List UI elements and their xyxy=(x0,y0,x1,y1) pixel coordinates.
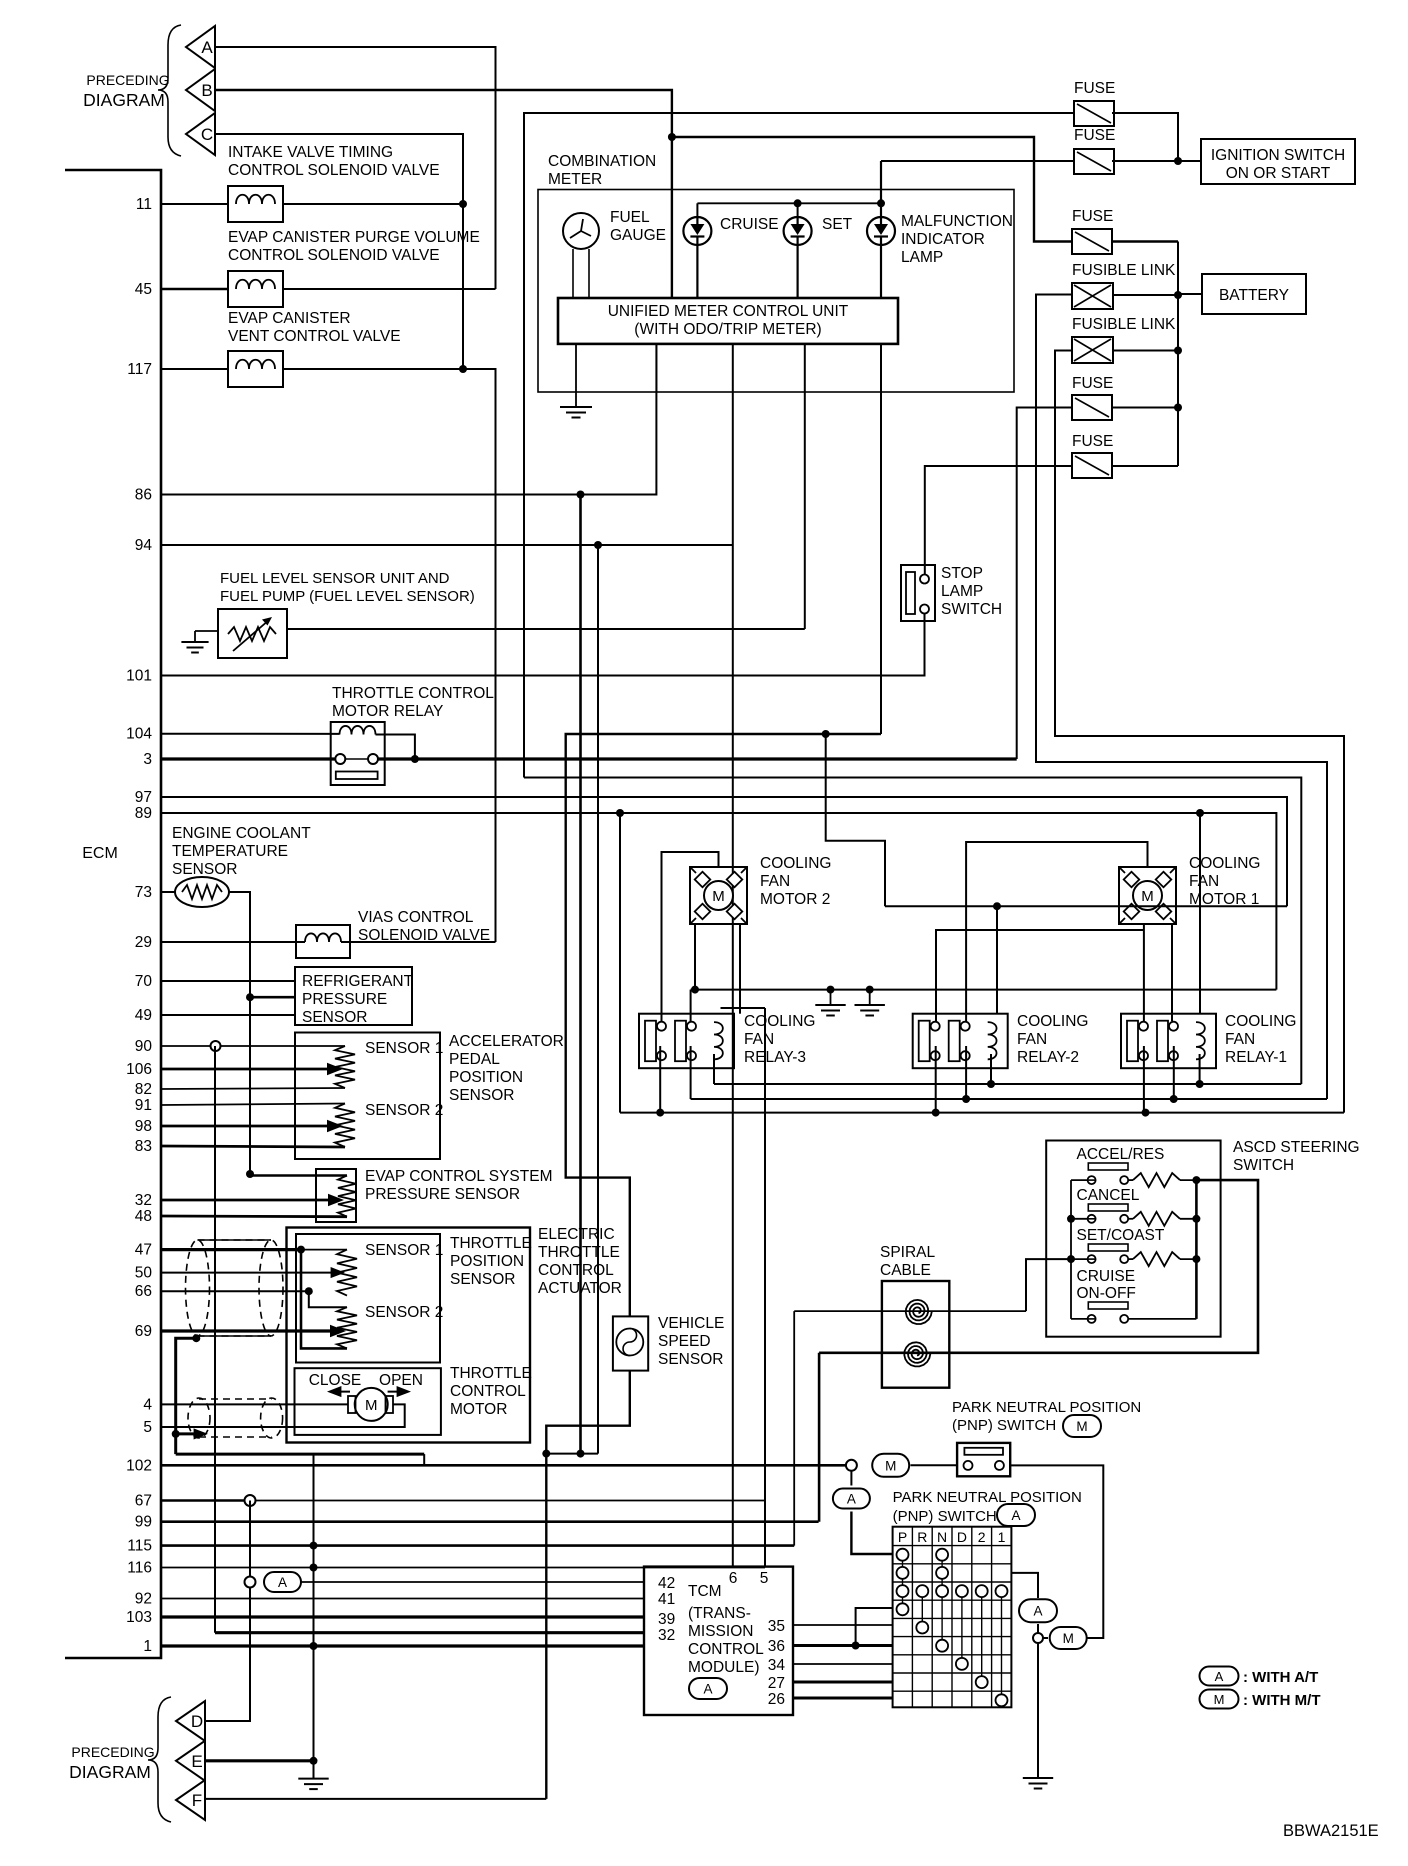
svg-text:A: A xyxy=(703,1682,712,1697)
svg-text:106: 106 xyxy=(126,1061,152,1078)
svg-text:COOLING: COOLING xyxy=(760,855,831,872)
svg-text:DIAGRAM: DIAGRAM xyxy=(83,90,165,110)
svg-text:ACCEL/RES: ACCEL/RES xyxy=(1077,1146,1165,1163)
svg-text:E: E xyxy=(191,1752,202,1771)
svg-text:C: C xyxy=(201,125,213,144)
svg-text:86: 86 xyxy=(135,487,152,504)
svg-text:INDICATOR: INDICATOR xyxy=(901,231,985,248)
svg-text:PRECEDING: PRECEDING xyxy=(86,72,169,88)
svg-text:36: 36 xyxy=(768,1638,785,1655)
svg-text:SET: SET xyxy=(822,216,853,233)
svg-text:GAUGE: GAUGE xyxy=(610,227,666,244)
svg-text:SENSOR 1: SENSOR 1 xyxy=(365,1040,443,1057)
svg-text:FUSIBLE LINK: FUSIBLE LINK xyxy=(1072,262,1176,279)
svg-text:CONTROL SOLENOID VALVE: CONTROL SOLENOID VALVE xyxy=(228,247,440,264)
svg-text:P: P xyxy=(898,1529,907,1545)
svg-text:VIAS CONTROL: VIAS CONTROL xyxy=(358,909,474,926)
svg-text:METER: METER xyxy=(548,171,602,188)
svg-text:PEDAL: PEDAL xyxy=(449,1051,500,1068)
svg-text:45: 45 xyxy=(135,281,152,298)
svg-text:CONTROL: CONTROL xyxy=(688,1641,764,1658)
svg-text:M: M xyxy=(1076,1419,1087,1434)
svg-text:5: 5 xyxy=(143,1419,152,1436)
svg-text:ON-OFF: ON-OFF xyxy=(1077,1285,1136,1302)
svg-text:M: M xyxy=(1214,1692,1225,1707)
svg-text:POSITION: POSITION xyxy=(449,1069,523,1086)
svg-text:CRUISE: CRUISE xyxy=(1077,1268,1136,1285)
svg-text:PRECEDING: PRECEDING xyxy=(71,1744,154,1760)
svg-text:ECM: ECM xyxy=(82,845,118,862)
svg-text:4: 4 xyxy=(143,1396,152,1413)
svg-text:2: 2 xyxy=(978,1529,986,1545)
svg-text:: WITH M/T: : WITH M/T xyxy=(1243,1692,1320,1709)
svg-text:FAN: FAN xyxy=(1189,873,1219,890)
svg-text:SENSOR: SENSOR xyxy=(450,1271,515,1288)
svg-text:FUSIBLE LINK: FUSIBLE LINK xyxy=(1072,316,1176,333)
svg-text:91: 91 xyxy=(135,1097,152,1114)
svg-text:SENSOR 2: SENSOR 2 xyxy=(365,1304,443,1321)
svg-text:73: 73 xyxy=(135,884,152,901)
svg-text:102: 102 xyxy=(126,1457,152,1474)
svg-text:ELECTRIC: ELECTRIC xyxy=(538,1226,615,1243)
svg-text:90: 90 xyxy=(135,1038,153,1055)
svg-text:SET/COAST: SET/COAST xyxy=(1077,1227,1165,1244)
svg-text:BATTERY: BATTERY xyxy=(1219,287,1289,304)
svg-text:98: 98 xyxy=(135,1118,152,1135)
svg-text:3: 3 xyxy=(143,751,152,768)
svg-text:ENGINE COOLANT: ENGINE COOLANT xyxy=(172,825,311,842)
svg-text:FUSE: FUSE xyxy=(1072,375,1113,392)
svg-text:A: A xyxy=(278,1575,287,1590)
svg-text:97: 97 xyxy=(135,789,152,806)
svg-text:27: 27 xyxy=(768,1675,785,1692)
svg-text:104: 104 xyxy=(126,726,152,743)
svg-text:117: 117 xyxy=(127,361,152,378)
svg-text:M: M xyxy=(365,1397,378,1414)
svg-text:M: M xyxy=(885,1458,896,1473)
svg-text:: WITH A/T: : WITH A/T xyxy=(1243,1669,1318,1686)
svg-text:SENSOR: SENSOR xyxy=(302,1009,367,1026)
svg-text:IGNITION SWITCH: IGNITION SWITCH xyxy=(1211,147,1345,164)
svg-text:ASCD STEERING: ASCD STEERING xyxy=(1233,1139,1360,1156)
svg-text:A: A xyxy=(1215,1669,1224,1684)
svg-text:SPIRAL: SPIRAL xyxy=(880,1244,936,1261)
svg-text:6: 6 xyxy=(729,1570,738,1587)
svg-text:5: 5 xyxy=(760,1570,769,1587)
svg-text:REFRIGERANT: REFRIGERANT xyxy=(302,973,414,990)
svg-text:CONTROL: CONTROL xyxy=(538,1262,614,1279)
svg-text:29: 29 xyxy=(135,934,152,951)
svg-text:MISSION: MISSION xyxy=(688,1623,753,1640)
svg-text:SWITCH: SWITCH xyxy=(941,601,1002,618)
svg-text:FUEL: FUEL xyxy=(610,209,650,226)
svg-text:116: 116 xyxy=(127,1560,152,1577)
svg-text:39: 39 xyxy=(658,1611,675,1628)
svg-text:MOTOR RELAY: MOTOR RELAY xyxy=(332,703,443,720)
svg-text:THROTTLE: THROTTLE xyxy=(450,1235,532,1252)
svg-text:EVAP CANISTER PURGE VOLUME: EVAP CANISTER PURGE VOLUME xyxy=(228,229,480,246)
svg-text:101: 101 xyxy=(126,668,152,685)
svg-text:FUSE: FUSE xyxy=(1072,208,1113,225)
svg-text:COMBINATION: COMBINATION xyxy=(548,153,656,170)
svg-text:UNIFIED METER CONTROL UNIT: UNIFIED METER CONTROL UNIT xyxy=(608,303,849,320)
svg-text:47: 47 xyxy=(135,1242,152,1259)
svg-text:41: 41 xyxy=(658,1591,675,1608)
svg-text:CLOSE: CLOSE xyxy=(309,1372,362,1389)
svg-text:SENSOR 2: SENSOR 2 xyxy=(365,1102,443,1119)
svg-text:INTAKE VALVE TIMING: INTAKE VALVE TIMING xyxy=(228,144,393,161)
svg-text:89: 89 xyxy=(135,805,152,822)
svg-text:PARK NEUTRAL POSITION: PARK NEUTRAL POSITION xyxy=(893,1489,1082,1506)
svg-text:67: 67 xyxy=(135,1493,152,1510)
svg-text:SPEED: SPEED xyxy=(658,1333,711,1350)
svg-text:MALFUNCTION: MALFUNCTION xyxy=(901,213,1013,230)
svg-text:94: 94 xyxy=(135,537,153,554)
svg-text:99: 99 xyxy=(135,1514,152,1531)
svg-text:F: F xyxy=(192,1791,202,1810)
svg-text:1: 1 xyxy=(998,1529,1006,1545)
svg-text:PRESSURE: PRESSURE xyxy=(302,991,387,1008)
svg-text:STOP: STOP xyxy=(941,565,983,582)
svg-text:48: 48 xyxy=(135,1208,152,1225)
svg-text:COOLING: COOLING xyxy=(1225,1013,1296,1030)
svg-text:VENT CONTROL VALVE: VENT CONTROL VALVE xyxy=(228,328,401,345)
svg-text:N: N xyxy=(937,1529,947,1545)
svg-text:CONTROL SOLENOID VALVE: CONTROL SOLENOID VALVE xyxy=(228,162,440,179)
svg-text:SENSOR 1: SENSOR 1 xyxy=(365,1242,443,1259)
svg-text:69: 69 xyxy=(135,1323,152,1340)
svg-text:FAN: FAN xyxy=(1017,1031,1047,1048)
svg-text:50: 50 xyxy=(135,1265,153,1282)
svg-text:49: 49 xyxy=(135,1007,152,1024)
svg-text:82: 82 xyxy=(135,1081,152,1098)
svg-text:TEMPERATURE: TEMPERATURE xyxy=(172,843,288,860)
svg-text:SENSOR: SENSOR xyxy=(449,1087,514,1104)
svg-text:PRESSURE SENSOR: PRESSURE SENSOR xyxy=(365,1186,520,1203)
svg-text:MODULE): MODULE) xyxy=(688,1659,759,1676)
svg-text:LAMP: LAMP xyxy=(941,583,983,600)
svg-text:CONTROL: CONTROL xyxy=(450,1383,526,1400)
svg-text:M: M xyxy=(712,888,725,905)
svg-text:ACCELERATOR: ACCELERATOR xyxy=(449,1033,564,1050)
svg-text:(PNP) SWITCH: (PNP) SWITCH xyxy=(893,1508,997,1525)
svg-text:M: M xyxy=(1141,888,1154,905)
svg-text:A: A xyxy=(847,1492,856,1507)
svg-text:THROTTLE: THROTTLE xyxy=(538,1244,620,1261)
svg-text:115: 115 xyxy=(127,1538,152,1555)
svg-text:COOLING: COOLING xyxy=(744,1013,815,1030)
svg-text:FAN: FAN xyxy=(760,873,790,890)
svg-text:SENSOR: SENSOR xyxy=(172,861,237,878)
svg-text:FUSE: FUSE xyxy=(1074,127,1115,144)
svg-text:BBWA2151E: BBWA2151E xyxy=(1283,1822,1379,1840)
svg-text:B: B xyxy=(201,81,212,100)
svg-text:70: 70 xyxy=(135,973,153,990)
svg-text:EVAP CONTROL SYSTEM: EVAP CONTROL SYSTEM xyxy=(365,1168,552,1185)
svg-text:COOLING: COOLING xyxy=(1017,1013,1088,1030)
svg-text:11: 11 xyxy=(136,196,152,213)
svg-text:32: 32 xyxy=(658,1627,675,1644)
svg-text:VEHICLE: VEHICLE xyxy=(658,1315,724,1332)
svg-text:SWITCH: SWITCH xyxy=(1233,1157,1294,1174)
svg-text:FAN: FAN xyxy=(744,1031,774,1048)
svg-text:ON OR START: ON OR START xyxy=(1226,165,1331,182)
svg-text:(WITH ODO/TRIP METER): (WITH ODO/TRIP METER) xyxy=(634,321,821,338)
svg-text:92: 92 xyxy=(135,1591,152,1608)
svg-text:D: D xyxy=(191,1712,203,1731)
svg-text:66: 66 xyxy=(135,1283,152,1300)
svg-text:EVAP CANISTER: EVAP CANISTER xyxy=(228,310,351,327)
svg-text:(PNP) SWITCH: (PNP) SWITCH xyxy=(952,1417,1056,1434)
svg-text:83: 83 xyxy=(135,1138,152,1155)
svg-text:THROTTLE: THROTTLE xyxy=(450,1365,532,1382)
svg-text:103: 103 xyxy=(126,1609,152,1626)
svg-text:FUEL LEVEL SENSOR UNIT AND: FUEL LEVEL SENSOR UNIT AND xyxy=(220,570,450,587)
svg-text:MOTOR 2: MOTOR 2 xyxy=(760,891,830,908)
svg-text:PARK NEUTRAL POSITION: PARK NEUTRAL POSITION xyxy=(952,1399,1141,1416)
svg-text:CABLE: CABLE xyxy=(880,1262,931,1279)
svg-text:(TRANS-: (TRANS- xyxy=(688,1605,751,1622)
svg-text:D: D xyxy=(957,1529,967,1545)
svg-text:RELAY-3: RELAY-3 xyxy=(744,1049,806,1066)
svg-text:A: A xyxy=(201,38,213,57)
svg-text:CRUISE: CRUISE xyxy=(720,216,779,233)
svg-text:OPEN: OPEN xyxy=(379,1372,423,1389)
svg-text:COOLING: COOLING xyxy=(1189,855,1260,872)
svg-text:FUSE: FUSE xyxy=(1074,80,1115,97)
svg-text:FUSE: FUSE xyxy=(1072,433,1113,450)
svg-text:TCM: TCM xyxy=(688,1583,722,1600)
svg-text:1: 1 xyxy=(143,1638,152,1655)
svg-text:POSITION: POSITION xyxy=(450,1253,524,1270)
svg-text:CANCEL: CANCEL xyxy=(1077,1187,1140,1204)
svg-text:ACTUATOR: ACTUATOR xyxy=(538,1280,622,1297)
svg-text:42: 42 xyxy=(658,1575,675,1592)
svg-text:M: M xyxy=(1063,1631,1074,1646)
svg-text:THROTTLE CONTROL: THROTTLE CONTROL xyxy=(332,685,494,702)
svg-text:MOTOR: MOTOR xyxy=(450,1401,507,1418)
svg-text:35: 35 xyxy=(768,1618,785,1635)
svg-text:32: 32 xyxy=(135,1192,152,1209)
svg-text:34: 34 xyxy=(768,1657,786,1674)
svg-text:SENSOR: SENSOR xyxy=(658,1351,723,1368)
svg-text:FAN: FAN xyxy=(1225,1031,1255,1048)
svg-text:DIAGRAM: DIAGRAM xyxy=(69,1762,151,1782)
svg-text:A: A xyxy=(1033,1604,1042,1619)
svg-text:R: R xyxy=(917,1529,927,1545)
svg-text:RELAY-1: RELAY-1 xyxy=(1225,1049,1287,1066)
svg-text:26: 26 xyxy=(768,1691,785,1708)
svg-text:A: A xyxy=(1011,1508,1020,1523)
svg-text:FUEL PUMP (FUEL LEVEL SENSOR): FUEL PUMP (FUEL LEVEL SENSOR) xyxy=(220,588,475,605)
svg-text:LAMP: LAMP xyxy=(901,249,943,266)
svg-text:RELAY-2: RELAY-2 xyxy=(1017,1049,1079,1066)
